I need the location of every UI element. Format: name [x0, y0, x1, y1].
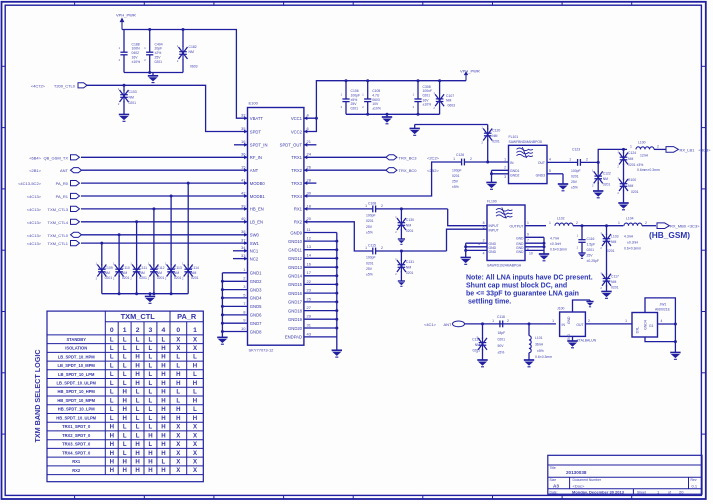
svg-text:TRX2_SPDT_0: TRX2_SPDT_0 — [62, 433, 91, 438]
svg-text:HB_SPDT_10_ULPM: HB_SPDT_10_ULPM — [56, 415, 96, 420]
svg-text:0603: 0603 — [448, 103, 456, 107]
capacitor C103 (NM) — [118, 85, 137, 114]
wire right GND bus — [335, 233, 338, 351]
svg-text:QB_GSM_TX: QB_GSM_TX — [44, 155, 69, 160]
table row LB_SPDT_10_MPM — [58, 363, 198, 370]
title block — [548, 455, 702, 494]
svg-text:OUT: OUT — [538, 161, 545, 165]
svg-text:L: L — [149, 380, 153, 387]
svg-text:NM: NM — [189, 50, 194, 54]
pin 34 NC1 — [241, 245, 259, 253]
pin 2 GND2 — [222, 276, 262, 284]
capacitor C117 (NM) — [600, 271, 619, 292]
node ANT port — [424, 321, 465, 327]
svg-text:H: H — [148, 467, 152, 474]
ground (FL100 right) — [539, 237, 549, 260]
node TXM_CTL0 port — [27, 232, 82, 238]
svg-text:C112: C112 — [157, 266, 165, 270]
svg-text:H: H — [110, 459, 114, 466]
capacitor C122 (NM) — [592, 162, 611, 191]
svg-text:H: H — [161, 441, 165, 448]
svg-text:39: 39 — [241, 203, 246, 208]
svg-text:16V: 16V — [132, 55, 139, 59]
pin 1 GND1 — [222, 267, 262, 275]
svg-text:H: H — [161, 424, 165, 431]
svg-text:L: L — [136, 397, 140, 404]
pin 40 LB_EN — [241, 216, 263, 224]
svg-text:C107: C107 — [446, 94, 454, 98]
svg-text:H: H — [176, 415, 180, 422]
ground (C122) — [593, 191, 603, 198]
pin 41 MODB0 — [241, 178, 265, 186]
svg-text:C114: C114 — [191, 266, 199, 270]
pin 43 ENDPAD — [285, 331, 337, 339]
pin 5 GND — [516, 246, 544, 252]
svg-text:Date:: Date: — [550, 490, 558, 494]
svg-text:34: 34 — [241, 245, 246, 250]
pin 9 GND7 — [222, 318, 262, 326]
pin 29 GND19 — [288, 314, 337, 322]
svg-text:H: H — [193, 363, 197, 370]
svg-text:0201: 0201 — [406, 271, 414, 275]
svg-text:ANT: ANT — [250, 168, 259, 173]
svg-text:LB_SPDT_10_MPM: LB_SPDT_10_MPM — [58, 363, 96, 368]
svg-text:L: L — [110, 406, 114, 413]
table row TRX2_SPDT_0 — [62, 432, 198, 439]
svg-text:HB_SPDT_10_HPM: HB_SPDT_10_HPM — [58, 389, 96, 394]
svg-text:GND12: GND12 — [288, 256, 303, 261]
svg-text:H: H — [135, 450, 139, 457]
pin 6 VCC2 — [291, 126, 310, 134]
svg-text:Size: Size — [550, 478, 557, 482]
svg-text:DXL: DXL — [636, 327, 640, 334]
svg-text:H: H — [122, 459, 126, 466]
svg-text:NM: NM — [628, 157, 633, 161]
svg-text:40: 40 — [241, 216, 246, 221]
table row HB_SPDT_10_LPM — [58, 406, 197, 413]
svg-text:25: 25 — [307, 296, 312, 301]
svg-text:be <= 33pF to guarantee LNA ga: be <= 33pF to guarantee LNA gain — [466, 291, 579, 298]
svg-text:INPUT: INPUT — [489, 229, 499, 233]
svg-text:L: L — [136, 406, 140, 413]
pin 31 GND20 — [288, 322, 337, 330]
svg-text:0201: 0201 — [472, 348, 480, 352]
svg-text:G1: G1 — [649, 324, 654, 328]
svg-text:25V: 25V — [587, 254, 594, 258]
svg-text:TRX4_SPDT_0: TRX4_SPDT_0 — [62, 450, 91, 455]
pin 8 INPUT — [483, 221, 499, 228]
svg-text:C123: C123 — [572, 148, 580, 152]
wire left GND bus — [221, 273, 224, 338]
svg-text:H: H — [135, 467, 139, 474]
pin GND top (J100) — [567, 300, 590, 324]
svg-text:C118: C118 — [497, 315, 505, 319]
ground (C119) — [477, 360, 487, 367]
pin 12 GND10 — [288, 236, 337, 244]
svg-text:100pF: 100pF — [366, 214, 376, 218]
svg-text:0201: 0201 — [366, 219, 374, 223]
pin 1 IN — [504, 157, 514, 165]
svg-text:1: 1 — [123, 327, 127, 334]
svg-text:GND17: GND17 — [288, 300, 303, 305]
svg-text:L100: L100 — [638, 140, 646, 144]
svg-text:H: H — [161, 345, 165, 352]
table row LB_SPDT_10_LPM — [58, 371, 197, 378]
svg-text:L: L — [136, 424, 140, 431]
svg-text:NM: NM — [475, 343, 480, 347]
wire C120 top to ground — [415, 124, 488, 126]
wire T200_CTL0 to SPDT — [87, 84, 248, 132]
svg-text:VPH_PWR: VPH_PWR — [460, 69, 480, 74]
svg-text:0201: 0201 — [611, 285, 619, 289]
svg-text:4.3nH: 4.3nH — [624, 235, 634, 239]
wire RX1 — [304, 208, 373, 210]
pin 20 RX2 — [294, 216, 312, 224]
svg-text:L: L — [123, 371, 127, 378]
node RX_LB1 port — [666, 147, 711, 153]
svg-text:16: 16 — [241, 139, 246, 144]
svg-text:RX_MB0: RX_MB0 — [670, 224, 687, 229]
svg-text:0201: 0201 — [139, 276, 147, 280]
svg-text:2: 2 — [657, 144, 659, 148]
svg-text:<4C13>: <4C13> — [27, 241, 42, 246]
pin 32 VBATT — [241, 113, 263, 121]
svg-text:L: L — [123, 380, 127, 387]
svg-text:RX1: RX1 — [72, 459, 81, 464]
svg-text:L: L — [110, 371, 114, 378]
svg-text:1.5pF: 1.5pF — [587, 243, 596, 247]
capacitor C114 (NM) — [182, 183, 199, 294]
svg-text:2: 2 — [645, 221, 647, 225]
capacitor C113 (NM) — [165, 196, 182, 294]
svg-text:STANDBY: STANDBY — [66, 337, 86, 342]
table row RX1 — [72, 459, 198, 466]
svg-text:GND1: GND1 — [510, 169, 520, 173]
svg-text:<3C3>: <3C3> — [688, 224, 701, 229]
svg-text:GND8: GND8 — [250, 329, 262, 334]
capacitor C131 (NM) — [395, 251, 414, 281]
svg-text:0201: 0201 — [603, 182, 611, 186]
svg-text:NM: NM — [492, 134, 497, 138]
svg-text:Sheet: Sheet — [637, 490, 646, 494]
svg-text:L: L — [123, 441, 127, 448]
svg-text:0.6×0.3mm: 0.6×0.3mm — [535, 355, 552, 359]
svg-text:MODB1: MODB1 — [250, 194, 266, 199]
svg-text:0201: 0201 — [498, 338, 506, 342]
svg-text:NM: NM — [628, 184, 633, 188]
svg-text:PA_R: PA_R — [177, 312, 197, 321]
node PA_R1 port — [27, 193, 80, 199]
svg-text:H: H — [135, 441, 139, 448]
node TRX_BC3 port — [304, 155, 440, 161]
svg-text:16: 16 — [307, 262, 312, 267]
table row ISOLATION — [65, 345, 198, 352]
svg-text:GND2: GND2 — [510, 174, 520, 178]
wire PA_R1 — [81, 195, 248, 198]
inductor L102 — [549, 217, 623, 252]
svg-text:2: 2 — [504, 166, 506, 170]
svg-text:NM: NM — [174, 271, 179, 275]
capacitor C120 (NM) — [482, 125, 501, 163]
inductor C124/12nH (NM shunt) — [617, 149, 660, 180]
svg-text:NM: NM — [406, 224, 411, 228]
table row TRX4_SPDT_0 — [62, 450, 198, 457]
svg-text:42: 42 — [241, 190, 246, 195]
svg-text:LB_SPDT_10_HPM: LB_SPDT_10_HPM — [58, 354, 95, 359]
svg-text:L: L — [110, 336, 114, 343]
svg-text:of: of — [668, 490, 671, 494]
svg-text:LB_EN: LB_EN — [250, 220, 263, 225]
filter FL100 box — [487, 200, 525, 268]
svg-text:H: H — [110, 424, 114, 431]
svg-text:C122: C122 — [603, 171, 611, 175]
svg-text:E100: E100 — [249, 101, 259, 106]
pin 17 GND14 — [288, 270, 337, 278]
svg-text:NM: NM — [406, 266, 411, 270]
svg-text:L: L — [193, 354, 197, 361]
pin 21 SPDT_OUT — [280, 139, 312, 147]
svg-text:L: L — [176, 389, 180, 396]
svg-text:C116: C116 — [587, 237, 595, 241]
svg-text:36: 36 — [241, 152, 246, 157]
svg-text:L101: L101 — [535, 336, 543, 340]
svg-text:L: L — [149, 389, 153, 396]
pin 2 GND — [466, 239, 497, 247]
svg-text:MODB0: MODB0 — [250, 181, 266, 186]
svg-text:GND19: GND19 — [288, 317, 303, 322]
svg-text:H: H — [148, 432, 152, 439]
svg-text:H: H — [193, 415, 197, 422]
table row HB_SPDT_10_HPM — [58, 389, 198, 396]
svg-text:LB_SPDT_10_ULPM: LB_SPDT_10_ULPM — [57, 381, 97, 386]
svg-text:L: L — [110, 363, 114, 370]
svg-text:L: L — [123, 336, 127, 343]
svg-text:20: 20 — [679, 489, 684, 494]
svg-text:2: 2 — [381, 204, 383, 208]
table row TRX1_SPDT_0 — [62, 424, 198, 431]
ground (VCC caps) — [382, 114, 392, 124]
svg-text:L: L — [110, 397, 114, 404]
svg-text:0201: 0201 — [366, 261, 374, 265]
wire C126 junction to FL101 IN — [488, 161, 509, 163]
table row STANDBY — [66, 336, 198, 343]
pin 5 GND4 — [222, 292, 262, 300]
svg-text:0: 0 — [110, 327, 114, 334]
wire RX2 — [304, 222, 373, 251]
svg-text:L103: L103 — [611, 235, 619, 239]
svg-text:<2B2>: <2B2> — [427, 168, 439, 173]
ground (right GND bus) — [332, 350, 342, 357]
svg-text:±10%: ±10% — [423, 103, 432, 107]
capacitor C188 — [119, 30, 141, 73]
svg-text:VBATT: VBATT — [250, 116, 264, 121]
capacitor C182 (NM) — [177, 30, 198, 73]
svg-text:1: 1 — [618, 221, 620, 225]
capacitor C116 — [577, 226, 599, 263]
svg-text:2: 2 — [483, 239, 485, 243]
svg-text:L: L — [123, 345, 127, 352]
pin 18 RX1 — [294, 203, 312, 211]
svg-text:0201: 0201 — [452, 174, 460, 178]
svg-text:H: H — [161, 354, 165, 361]
svg-text:H: H — [135, 380, 139, 387]
svg-text:H: H — [122, 406, 126, 413]
svg-text:JW1: JW1 — [660, 303, 667, 307]
svg-text:H: H — [161, 467, 165, 474]
ground (C131) — [398, 281, 405, 286]
capacitor C106 — [341, 81, 361, 115]
wire TXM_CTL3 — [81, 207, 248, 210]
svg-text:17: 17 — [307, 270, 312, 275]
svg-text:1: 1 — [527, 221, 529, 225]
svg-text:0.6×0.3mm: 0.6×0.3mm — [624, 247, 641, 251]
pin 14 GND12 — [288, 253, 337, 261]
svg-text:HB_SPDT_10_MPM: HB_SPDT_10_MPM — [57, 398, 95, 403]
svg-text:AI60021E: AI60021E — [655, 308, 671, 312]
svg-text:<4C13>: <4C13> — [27, 220, 42, 225]
svg-text:GND16: GND16 — [288, 291, 303, 296]
pin 26 TRX2 — [291, 165, 311, 173]
svg-text:<3C3>: <3C3> — [699, 147, 712, 152]
svg-text:4: 4 — [483, 252, 485, 256]
svg-text:<2C2>: <2C2> — [427, 155, 440, 160]
svg-text:H: H — [122, 389, 126, 396]
svg-text:C103: C103 — [129, 90, 137, 94]
svg-text:GND11: GND11 — [288, 248, 302, 253]
svg-text:8: 8 — [483, 221, 485, 225]
svg-text:GND15: GND15 — [288, 282, 303, 287]
table row TRX3_SPDT_0 — [62, 441, 198, 448]
svg-text:GND: GND — [516, 236, 524, 240]
svg-text:VCC1: VCC1 — [291, 116, 303, 121]
svg-text:0201 ±3%: 0201 ±3% — [628, 163, 643, 167]
svg-text:A3: A3 — [553, 483, 559, 488]
svg-text:2: 2 — [381, 246, 383, 250]
svg-text:0201: 0201 — [351, 106, 359, 110]
pin 15 ANT — [241, 165, 259, 173]
wire TXM_CTL4 — [81, 220, 248, 223]
svg-text:SW1: SW1 — [250, 241, 260, 246]
svg-text:31: 31 — [307, 322, 312, 327]
connector J100 box — [557, 307, 597, 343]
pin GND bottom (JW1) — [645, 323, 677, 344]
svg-text:±5%: ±5% — [366, 231, 373, 235]
ground (FL101 left) — [486, 170, 496, 189]
table TXM band select logic — [47, 311, 203, 482]
svg-text:GND3: GND3 — [536, 174, 546, 178]
pin 33 NC2 — [241, 253, 259, 261]
svg-text:H: H — [161, 363, 165, 370]
svg-text:L: L — [136, 389, 140, 396]
svg-text:OUTPUT: OUTPUT — [510, 225, 524, 229]
note text — [466, 275, 593, 306]
svg-text:<2B1>: <2B1> — [29, 168, 41, 173]
pin 13 GND11 — [288, 244, 336, 252]
pin 16 GND13 — [288, 262, 337, 270]
capacitor C130 (NM) — [395, 209, 414, 239]
capacitor C105 — [362, 81, 381, 115]
svg-text:C120: C120 — [492, 129, 500, 133]
svg-text:L: L — [136, 345, 140, 352]
svg-text:ENDPAD: ENDPAD — [285, 335, 302, 340]
svg-text:35: 35 — [241, 126, 246, 131]
svg-text:37: 37 — [241, 238, 246, 243]
svg-text:<4C1>: <4C1> — [424, 322, 437, 327]
svg-text:NM: NM — [122, 271, 127, 275]
svg-text:PA_R1: PA_R1 — [56, 194, 69, 199]
pin 4 OUT — [538, 157, 578, 165]
svg-text:TXM_CTL0: TXM_CTL0 — [48, 233, 69, 238]
svg-text:RX2: RX2 — [294, 220, 303, 225]
wire QB_GSM_TX — [81, 156, 248, 158]
svg-text:1: 1 — [365, 204, 367, 208]
svg-text:TRX3_SPDT_0: TRX3_SPDT_0 — [62, 442, 91, 447]
svg-text:H: H — [135, 459, 139, 466]
svg-text:1: 1 — [492, 319, 494, 323]
svg-text:18pF: 18pF — [498, 331, 506, 335]
pin 36 RF_IN — [241, 152, 262, 160]
svg-text:GND18: GND18 — [288, 308, 303, 313]
svg-text:0: 0 — [176, 327, 180, 334]
node T200_CTL0 port — [31, 83, 87, 89]
svg-text:L: L — [149, 424, 153, 431]
svg-text:9: 9 — [527, 233, 529, 237]
capacitor C118 — [492, 315, 509, 355]
svg-text:GND7: GND7 — [250, 321, 262, 326]
svg-text:C110: C110 — [122, 266, 130, 270]
svg-text:0201: 0201 — [155, 60, 163, 64]
ground (C120) — [410, 125, 420, 136]
ground (R100) — [618, 203, 628, 210]
svg-text:NM: NM — [129, 96, 134, 100]
svg-text:H: H — [135, 354, 139, 361]
svg-text:C111: C111 — [139, 266, 147, 270]
svg-text:12nH: 12nH — [640, 154, 649, 158]
svg-text:<4C13>: <4C13> — [27, 194, 42, 199]
svg-text:1: 1 — [365, 246, 367, 250]
pin 24 TRX1 — [291, 152, 311, 160]
svg-text:L: L — [149, 354, 153, 361]
svg-text:GND6: GND6 — [250, 313, 262, 318]
svg-text:0201: 0201 — [406, 229, 414, 233]
svg-text:H: H — [176, 406, 180, 413]
svg-text:29: 29 — [307, 314, 312, 319]
pin 8 GND6 — [222, 309, 262, 317]
svg-text:GND5: GND5 — [250, 304, 262, 309]
svg-text:HB_SPDT_10_LPM: HB_SPDT_10_LPM — [58, 407, 95, 412]
ground (C103) — [119, 115, 129, 122]
svg-text:3: 3 — [478, 242, 480, 246]
svg-text:H: H — [161, 380, 165, 387]
op IC U-E100 box — [248, 101, 304, 353]
pin 4 GND — [649, 319, 675, 328]
svg-text:L: L — [176, 363, 180, 370]
svg-text:VPH_PWR: VPH_PWR — [116, 13, 136, 18]
svg-text:(HB_GSM): (HB_GSM) — [649, 230, 690, 240]
node RX_MB0 port — [657, 223, 700, 229]
svg-text:L: L — [149, 415, 153, 422]
svg-text:C119: C119 — [472, 337, 480, 341]
inductor L100 — [630, 140, 666, 149]
svg-text:NC2: NC2 — [250, 256, 259, 261]
svg-text:H: H — [110, 467, 114, 474]
svg-text:C126: C126 — [456, 153, 464, 157]
svg-text:4.7nH: 4.7nH — [550, 237, 560, 241]
svg-text:25V: 25V — [366, 267, 373, 271]
svg-text:Title: Title — [550, 466, 556, 470]
svg-text:0201: 0201 — [105, 276, 113, 280]
svg-text:20130038: 20130038 — [566, 470, 587, 475]
